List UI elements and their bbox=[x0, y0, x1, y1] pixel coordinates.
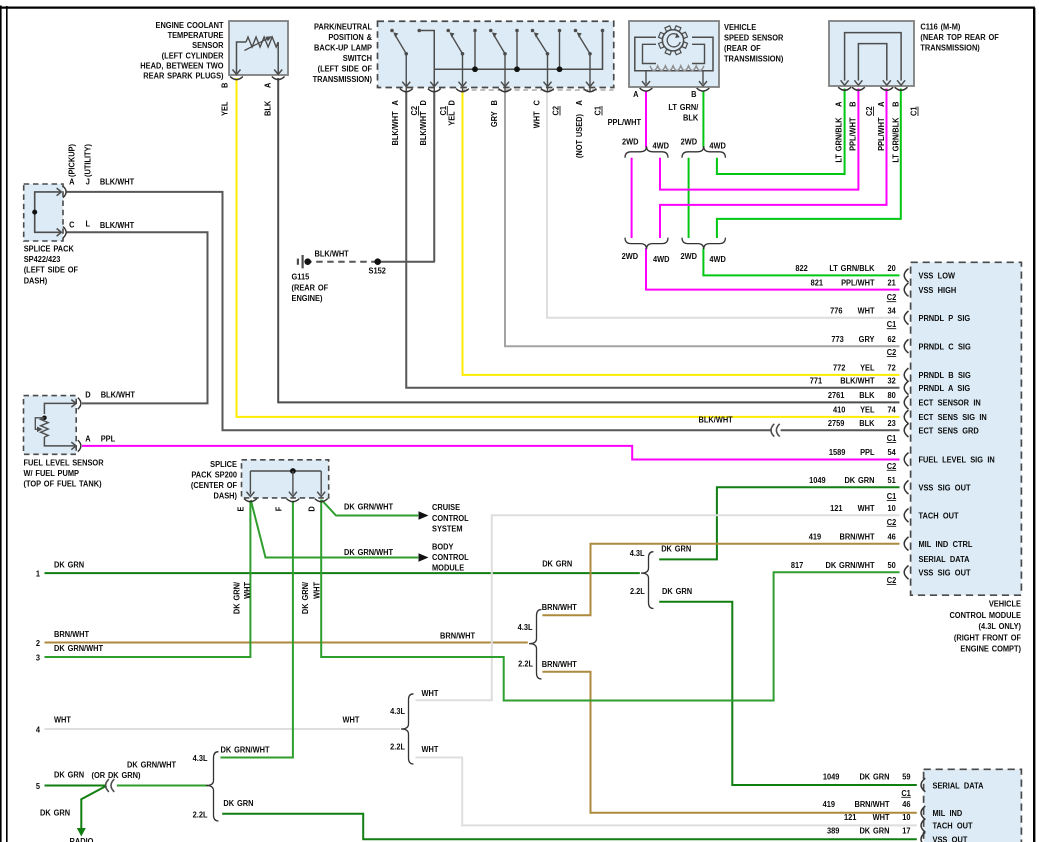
svg-text:4WD: 4WD bbox=[709, 254, 726, 264]
svg-text:DK GRN/WHT: DK GRN/WHT bbox=[344, 502, 393, 512]
svg-text:4: 4 bbox=[36, 725, 41, 735]
svg-text:SWITCH: SWITCH bbox=[343, 54, 372, 64]
svg-text:CONTROL: CONTROL bbox=[432, 553, 469, 563]
svg-text:2WD: 2WD bbox=[622, 252, 639, 262]
svg-text:TACH OUT: TACH OUT bbox=[933, 821, 973, 831]
svg-text:POSITION &: POSITION & bbox=[328, 33, 372, 43]
svg-text:419: 419 bbox=[823, 800, 836, 810]
svg-text:MODULE: MODULE bbox=[432, 563, 464, 573]
svg-text:BLK/WHT: BLK/WHT bbox=[100, 221, 134, 231]
svg-text:2.2L: 2.2L bbox=[193, 810, 208, 820]
svg-text:BLK/WHT: BLK/WHT bbox=[315, 249, 349, 259]
svg-text:2.2L: 2.2L bbox=[518, 659, 533, 669]
svg-text:DK GRN: DK GRN bbox=[859, 772, 889, 782]
svg-text:PPL/WHT: PPL/WHT bbox=[841, 278, 875, 288]
svg-text:HEAD, BETWEEN TWO: HEAD, BETWEEN TWO bbox=[140, 61, 223, 71]
svg-text:46: 46 bbox=[888, 532, 897, 542]
svg-text:PRNDL B SIG: PRNDL B SIG bbox=[919, 371, 971, 381]
svg-text:1049: 1049 bbox=[809, 476, 826, 486]
svg-text:DK GRN/WHT: DK GRN/WHT bbox=[54, 644, 103, 654]
svg-text:L: L bbox=[86, 219, 91, 229]
svg-text:TRANSMISSION): TRANSMISSION) bbox=[920, 43, 980, 53]
svg-text:822: 822 bbox=[795, 264, 808, 274]
svg-text:BRN/WHT: BRN/WHT bbox=[854, 800, 889, 810]
svg-text:(REAR OF: (REAR OF bbox=[724, 44, 761, 54]
svg-text:DK GRN: DK GRN bbox=[859, 826, 889, 836]
svg-text:4WD: 4WD bbox=[709, 141, 726, 151]
svg-text:SERIAL DATA: SERIAL DATA bbox=[933, 781, 984, 791]
svg-text:3: 3 bbox=[36, 653, 41, 663]
svg-text:BRN/WHT: BRN/WHT bbox=[839, 532, 874, 542]
svg-text:F: F bbox=[274, 507, 284, 512]
svg-text:SP422/423: SP422/423 bbox=[24, 255, 61, 265]
svg-text:CONTROL MODULE: CONTROL MODULE bbox=[949, 610, 1021, 620]
svg-text:17: 17 bbox=[902, 826, 911, 836]
svg-text:DK GRN: DK GRN bbox=[40, 808, 70, 818]
svg-text:TEMPERATURE: TEMPERATURE bbox=[168, 31, 224, 41]
svg-text:80: 80 bbox=[888, 391, 897, 401]
svg-text:GRY: GRY bbox=[859, 335, 875, 345]
svg-text:DK GRN: DK GRN bbox=[844, 476, 874, 486]
svg-text:BRN/WHT: BRN/WHT bbox=[440, 631, 475, 641]
svg-text:ECT SENS SIG IN: ECT SENS SIG IN bbox=[919, 413, 987, 423]
svg-text:YEL: YEL bbox=[860, 405, 875, 415]
svg-text:(4.3L ONLY): (4.3L ONLY) bbox=[979, 622, 1022, 632]
svg-text:E: E bbox=[236, 507, 246, 512]
svg-text:2WD: 2WD bbox=[681, 137, 698, 147]
svg-text:BLK/WHT: BLK/WHT bbox=[101, 390, 135, 400]
svg-text:VSS OUT: VSS OUT bbox=[933, 835, 968, 842]
svg-text:A: A bbox=[834, 101, 844, 107]
svg-text:72: 72 bbox=[888, 363, 897, 373]
svg-text:BACK-UP LAMP: BACK-UP LAMP bbox=[314, 43, 373, 53]
svg-text:821: 821 bbox=[811, 278, 824, 288]
svg-text:WHT: WHT bbox=[422, 744, 439, 754]
svg-text:50: 50 bbox=[888, 561, 897, 571]
svg-text:MIL IND CTRL: MIL IND CTRL bbox=[919, 540, 973, 550]
svg-text:C2: C2 bbox=[887, 575, 897, 585]
svg-text:LT GRN/BLK: LT GRN/BLK bbox=[891, 117, 901, 162]
svg-text:D: D bbox=[85, 390, 91, 400]
svg-text:A: A bbox=[391, 100, 401, 106]
svg-text:PRNDL A SIG: PRNDL A SIG bbox=[919, 384, 971, 394]
svg-text:D: D bbox=[419, 100, 429, 106]
svg-text:BODY: BODY bbox=[432, 542, 454, 552]
svg-text:C1: C1 bbox=[887, 434, 897, 444]
svg-text:VSS LOW: VSS LOW bbox=[919, 271, 956, 281]
svg-text:SPLICE PACK: SPLICE PACK bbox=[24, 244, 74, 254]
svg-text:DASH): DASH) bbox=[24, 276, 48, 286]
svg-text:TRANSMISSION): TRANSMISSION) bbox=[313, 75, 373, 85]
svg-text:2.2L: 2.2L bbox=[630, 587, 645, 597]
svg-text:2WD: 2WD bbox=[680, 252, 697, 262]
svg-text:773: 773 bbox=[831, 335, 844, 345]
svg-text:4.3L: 4.3L bbox=[193, 754, 208, 764]
svg-text:771: 771 bbox=[810, 376, 823, 386]
svg-text:BRN/WHT: BRN/WHT bbox=[54, 630, 89, 640]
svg-text:(LEFT SIDE OF: (LEFT SIDE OF bbox=[318, 64, 372, 74]
svg-text:SPEED SENSOR: SPEED SENSOR bbox=[724, 33, 784, 43]
svg-text:C2: C2 bbox=[410, 105, 420, 115]
svg-text:C2: C2 bbox=[551, 105, 561, 115]
svg-text:FUEL LEVEL SENSOR: FUEL LEVEL SENSOR bbox=[24, 458, 104, 468]
svg-text:20: 20 bbox=[888, 264, 897, 274]
svg-text:BLK: BLK bbox=[859, 391, 874, 401]
svg-text:WHT: WHT bbox=[422, 689, 439, 699]
svg-text:WHT: WHT bbox=[858, 306, 875, 316]
svg-text:BLK/WHT: BLK/WHT bbox=[391, 111, 401, 145]
svg-text:C1: C1 bbox=[909, 106, 919, 116]
svg-text:ENGINE COMPT): ENGINE COMPT) bbox=[960, 644, 1021, 654]
svg-text:PRNDL C SIG: PRNDL C SIG bbox=[919, 342, 971, 352]
svg-text:C: C bbox=[532, 100, 542, 106]
svg-text:DK GRN: DK GRN bbox=[661, 544, 691, 554]
svg-text:4.3L: 4.3L bbox=[518, 623, 533, 633]
svg-text:SENSOR: SENSOR bbox=[192, 41, 224, 51]
svg-text:(LEFT CYLINDER: (LEFT CYLINDER bbox=[162, 51, 224, 61]
svg-text:C: C bbox=[69, 220, 75, 230]
svg-text:YEL: YEL bbox=[220, 101, 230, 116]
svg-text:BRN/WHT: BRN/WHT bbox=[542, 660, 577, 670]
svg-text:BLK: BLK bbox=[683, 113, 698, 123]
svg-text:(NOT USED): (NOT USED) bbox=[574, 114, 584, 158]
svg-text:B: B bbox=[489, 100, 499, 106]
svg-text:WHT: WHT bbox=[343, 715, 360, 725]
svg-text:A: A bbox=[69, 177, 75, 187]
svg-text:2761: 2761 bbox=[828, 391, 845, 401]
svg-text:2759: 2759 bbox=[828, 419, 845, 429]
svg-text:B: B bbox=[691, 90, 697, 100]
svg-text:(CENTER OF: (CENTER OF bbox=[191, 481, 237, 491]
svg-text:VSS SIG OUT: VSS SIG OUT bbox=[919, 568, 971, 578]
svg-text:DK GRN/: DK GRN/ bbox=[301, 581, 311, 614]
svg-text:DASH): DASH) bbox=[214, 491, 238, 501]
svg-text:DK GRN: DK GRN bbox=[223, 798, 253, 808]
svg-text:(REAR OF: (REAR OF bbox=[292, 283, 329, 293]
svg-text:21: 21 bbox=[888, 278, 897, 288]
svg-text:CRUISE: CRUISE bbox=[432, 503, 460, 513]
svg-text:4WD: 4WD bbox=[653, 141, 670, 151]
svg-text:DK GRN: DK GRN bbox=[54, 770, 84, 780]
svg-text:776: 776 bbox=[830, 306, 843, 316]
svg-text:(LEFT SIDE OF: (LEFT SIDE OF bbox=[24, 265, 78, 275]
svg-text:B: B bbox=[891, 101, 901, 107]
svg-text:BLK: BLK bbox=[263, 101, 273, 116]
svg-text:CONTROL: CONTROL bbox=[432, 513, 469, 523]
svg-text:SYSTEM: SYSTEM bbox=[432, 524, 463, 534]
svg-text:121: 121 bbox=[844, 812, 857, 822]
svg-text:WHT: WHT bbox=[858, 504, 875, 514]
svg-text:2WD: 2WD bbox=[622, 137, 639, 147]
svg-text:ECT SENS GRD: ECT SENS GRD bbox=[919, 426, 979, 436]
svg-text:S152: S152 bbox=[369, 266, 387, 276]
svg-text:59: 59 bbox=[902, 772, 911, 782]
svg-text:C1: C1 bbox=[887, 320, 897, 330]
svg-text:MIL IND: MIL IND bbox=[933, 809, 963, 819]
svg-text:DK GRN/WHT: DK GRN/WHT bbox=[344, 547, 393, 557]
svg-text:74: 74 bbox=[888, 405, 897, 415]
svg-text:PACK SP200: PACK SP200 bbox=[191, 470, 237, 480]
svg-text:C2: C2 bbox=[865, 106, 875, 116]
svg-text:REAR SPARK PLUGS): REAR SPARK PLUGS) bbox=[143, 71, 224, 81]
svg-text:C2: C2 bbox=[887, 517, 897, 527]
svg-text:BLK/WHT: BLK/WHT bbox=[699, 415, 733, 425]
svg-text:W/ FUEL PUMP: W/ FUEL PUMP bbox=[24, 469, 80, 479]
svg-text:51: 51 bbox=[888, 476, 897, 486]
svg-text:BLK: BLK bbox=[859, 419, 874, 429]
svg-text:WHT: WHT bbox=[873, 812, 890, 822]
svg-text:VSS HIGH: VSS HIGH bbox=[919, 285, 957, 295]
svg-text:C1: C1 bbox=[593, 105, 603, 115]
svg-text:A: A bbox=[633, 90, 639, 100]
svg-text:62: 62 bbox=[888, 335, 897, 345]
svg-text:(UTILITY): (UTILITY) bbox=[83, 144, 93, 177]
svg-text:46: 46 bbox=[902, 800, 911, 810]
svg-text:A: A bbox=[85, 434, 91, 444]
svg-text:DK GRN: DK GRN bbox=[54, 560, 84, 570]
svg-text:VSS SIG OUT: VSS SIG OUT bbox=[919, 483, 971, 493]
svg-text:419: 419 bbox=[809, 532, 822, 542]
svg-text:DK GRN/WHT: DK GRN/WHT bbox=[825, 561, 874, 571]
svg-text:A: A bbox=[574, 100, 584, 106]
svg-text:C116 (M-M): C116 (M-M) bbox=[920, 22, 960, 32]
svg-text:DK GRN/WHT: DK GRN/WHT bbox=[221, 745, 270, 755]
svg-text:B: B bbox=[220, 82, 230, 88]
svg-text:FUEL LEVEL SIG IN: FUEL LEVEL SIG IN bbox=[919, 455, 995, 465]
svg-text:(TOP OF FUEL TANK): (TOP OF FUEL TANK) bbox=[24, 479, 102, 489]
svg-text:1589: 1589 bbox=[829, 448, 846, 458]
svg-text:DK GRN/: DK GRN/ bbox=[232, 581, 242, 614]
svg-text:C1: C1 bbox=[901, 788, 911, 798]
svg-text:A: A bbox=[263, 82, 273, 88]
svg-text:10: 10 bbox=[888, 504, 897, 514]
svg-text:D: D bbox=[307, 506, 317, 512]
svg-text:389: 389 bbox=[827, 826, 840, 836]
svg-text:BLK/WHT: BLK/WHT bbox=[840, 376, 874, 386]
svg-text:PPL/WHT: PPL/WHT bbox=[848, 117, 858, 151]
svg-text:WHT: WHT bbox=[243, 582, 253, 599]
svg-text:GRY: GRY bbox=[489, 111, 499, 127]
svg-text:C2: C2 bbox=[887, 461, 897, 471]
svg-text:5: 5 bbox=[36, 781, 41, 791]
svg-text:C1: C1 bbox=[438, 105, 448, 115]
svg-text:PPL: PPL bbox=[860, 448, 875, 458]
svg-text:TACH OUT: TACH OUT bbox=[919, 511, 959, 521]
svg-text:34: 34 bbox=[888, 306, 897, 316]
svg-text:ENGINE COOLANT: ENGINE COOLANT bbox=[156, 21, 224, 31]
svg-text:SERIAL DATA: SERIAL DATA bbox=[919, 554, 970, 564]
svg-text:PPL/WHT: PPL/WHT bbox=[608, 118, 642, 128]
svg-text:BLK/WHT: BLK/WHT bbox=[419, 111, 429, 145]
svg-text:772: 772 bbox=[833, 363, 846, 373]
svg-text:YEL: YEL bbox=[447, 111, 457, 126]
svg-text:4.3L: 4.3L bbox=[630, 549, 645, 559]
svg-text:B: B bbox=[848, 101, 858, 107]
svg-text:2.2L: 2.2L bbox=[390, 742, 405, 752]
svg-text:TRANSMISSION): TRANSMISSION) bbox=[724, 54, 784, 64]
svg-text:1049: 1049 bbox=[823, 772, 840, 782]
svg-text:(OR DK GRN): (OR DK GRN) bbox=[92, 770, 141, 780]
svg-text:BRN/WHT: BRN/WHT bbox=[542, 603, 577, 613]
svg-text:C1: C1 bbox=[887, 492, 897, 502]
svg-text:32: 32 bbox=[888, 376, 897, 386]
svg-text:PARK/NEUTRAL: PARK/NEUTRAL bbox=[314, 22, 372, 32]
svg-text:A: A bbox=[877, 101, 887, 107]
svg-text:2: 2 bbox=[36, 639, 41, 649]
svg-text:C2: C2 bbox=[887, 348, 897, 358]
svg-text:RADIO: RADIO bbox=[70, 837, 94, 842]
svg-text:1: 1 bbox=[36, 569, 41, 579]
svg-text:D: D bbox=[447, 100, 457, 106]
svg-text:DK GRN: DK GRN bbox=[542, 559, 572, 569]
svg-text:121: 121 bbox=[830, 504, 843, 514]
svg-text:G115: G115 bbox=[292, 272, 310, 282]
svg-text:PPL: PPL bbox=[101, 434, 116, 444]
svg-text:DK GRN/WHT: DK GRN/WHT bbox=[127, 760, 176, 770]
svg-text:VEHICLE: VEHICLE bbox=[724, 23, 756, 33]
svg-text:DK GRN: DK GRN bbox=[662, 586, 692, 596]
svg-text:410: 410 bbox=[833, 405, 846, 415]
svg-text:SPLICE: SPLICE bbox=[210, 460, 237, 470]
svg-text:817: 817 bbox=[791, 561, 804, 571]
svg-text:ECT SENSOR IN: ECT SENSOR IN bbox=[919, 398, 982, 408]
svg-text:WHT: WHT bbox=[532, 111, 542, 128]
svg-text:54: 54 bbox=[888, 448, 897, 458]
svg-text:J: J bbox=[86, 177, 90, 187]
svg-text:(NEAR TOP REAR OF: (NEAR TOP REAR OF bbox=[920, 33, 998, 43]
svg-text:C2: C2 bbox=[887, 293, 897, 303]
svg-text:(PICKUP): (PICKUP) bbox=[67, 144, 77, 177]
svg-text:PRNDL P SIG: PRNDL P SIG bbox=[919, 314, 971, 324]
svg-text:WHT: WHT bbox=[312, 582, 322, 599]
svg-text:LT GRN/BLK: LT GRN/BLK bbox=[829, 264, 874, 274]
svg-text:ENGINE): ENGINE) bbox=[292, 294, 323, 304]
svg-text:PPL/WHT: PPL/WHT bbox=[877, 117, 887, 151]
svg-text:4WD: 4WD bbox=[653, 254, 670, 264]
svg-text:4.3L: 4.3L bbox=[390, 706, 405, 716]
svg-text:LT GRN/BLK: LT GRN/BLK bbox=[834, 117, 844, 162]
svg-text:BLK/WHT: BLK/WHT bbox=[100, 177, 134, 187]
svg-text:YEL: YEL bbox=[860, 363, 875, 373]
svg-text:10: 10 bbox=[902, 812, 911, 822]
svg-text:VEHICLE: VEHICLE bbox=[989, 599, 1021, 609]
svg-text:LT GRN/: LT GRN/ bbox=[668, 102, 699, 112]
svg-text:23: 23 bbox=[888, 419, 897, 429]
svg-text:WHT: WHT bbox=[54, 715, 71, 725]
svg-text:(RIGHT FRONT OF: (RIGHT FRONT OF bbox=[954, 633, 1021, 643]
